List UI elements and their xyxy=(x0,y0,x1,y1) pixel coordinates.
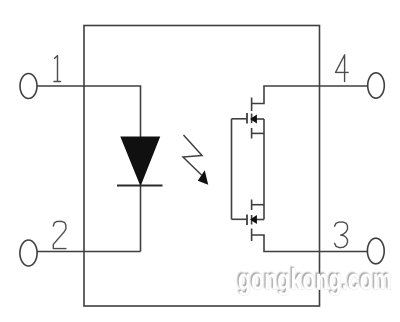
svg-text:gongkong.com: gongkong.com xyxy=(238,264,392,297)
